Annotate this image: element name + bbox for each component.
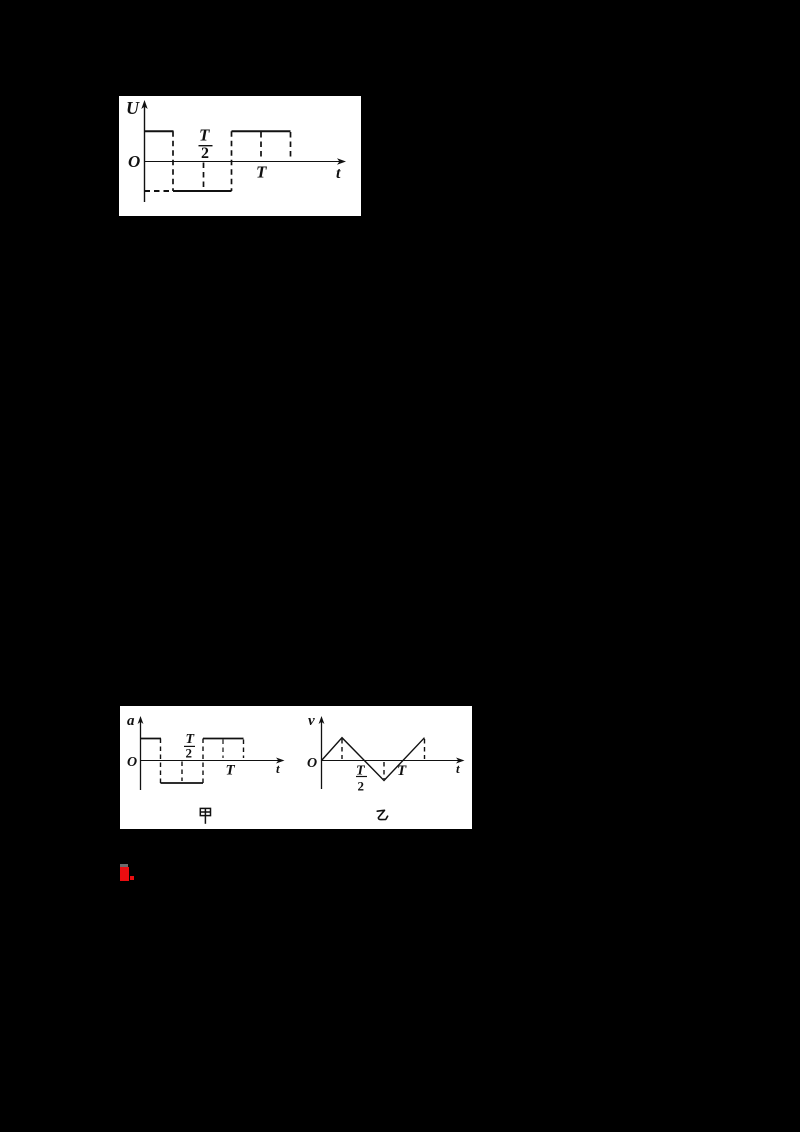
a-t axis (horizontal) [141, 758, 285, 764]
wave: solid high segment 1 [145, 130, 174, 132]
svg-text:t: t [456, 761, 460, 776]
a wave: dashed falling edge 2 [243, 740, 245, 759]
dashed marker at T/4 peak [341, 739, 343, 759]
panel: a-t and v-t figure [120, 706, 472, 829]
svg-text:v: v [308, 713, 315, 729]
wave: dashed falling edge at T/4 [172, 131, 174, 191]
v-t axis (horizontal) [322, 758, 465, 764]
dashed marker at T/2 of a-t [181, 762, 183, 782]
a wave: solid low segment [161, 782, 204, 784]
dashed marker at T of a-t [222, 740, 224, 759]
dashed marker at 5T/4 peak [424, 739, 426, 759]
dashed marker at T [260, 132, 262, 158]
dashed marker at T/2 [203, 163, 205, 189]
svg-text:T: T [199, 125, 210, 144]
label T/2 fraction of a-t [184, 732, 196, 761]
svg-text:U: U [126, 98, 140, 118]
svg-text:O: O [127, 755, 137, 770]
wave: solid low segment [173, 190, 232, 192]
svg-text:T: T [256, 163, 267, 182]
svg-text:T: T [226, 763, 236, 779]
svg-text:t: t [336, 165, 341, 182]
red list marker "1." [120, 864, 128, 868]
svg-text:2: 2 [358, 779, 365, 794]
svg-text:O: O [128, 152, 140, 171]
svg-text:2: 2 [186, 746, 193, 761]
a wave: dashed falling edge [160, 739, 162, 784]
panel: U-t square wave figure [119, 96, 361, 216]
a wave: solid high segment 1 [141, 738, 162, 740]
a wave: solid high segment 2 [203, 738, 244, 740]
label T/2 fraction of v-t [356, 763, 367, 793]
dashed marker at 3T/4 trough [383, 762, 385, 779]
t axis (horizontal) [145, 158, 347, 164]
svg-text:t: t [276, 761, 280, 776]
label T/2 fraction [199, 125, 213, 162]
a wave: dashed rising edge [202, 739, 204, 784]
wave: dashed falling edge at 5T/4 [290, 132, 292, 158]
wave: dashed low segment before t=0 [145, 190, 174, 192]
wave: solid high segment 2 [232, 130, 291, 132]
svg-text:T: T [397, 763, 407, 779]
wave: dashed rising edge at 3T/4 [231, 131, 233, 191]
svg-text:O: O [307, 756, 317, 771]
svg-text:a: a [127, 713, 135, 729]
v axis (vertical) [319, 716, 325, 789]
U axis (vertical) [141, 100, 147, 202]
svg-text:2: 2 [201, 145, 209, 162]
caption jia (left figure) [200, 808, 210, 823]
v wave: triangle [322, 738, 425, 781]
a axis (vertical) [138, 716, 144, 790]
caption yi (right figure) [377, 810, 387, 819]
